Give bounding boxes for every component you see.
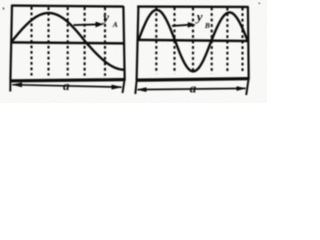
panel B left extension line <box>135 81 136 94</box>
panel A top border <box>11 6 123 7</box>
panel A dimension right arrowhead <box>112 85 123 90</box>
svg-text:a: a <box>190 80 197 95</box>
panel B sine curve yB <box>139 10 248 71</box>
panel B velocity arrowhead <box>188 22 196 28</box>
panel A bottom border <box>10 80 124 81</box>
panel A left extension line <box>9 81 11 92</box>
svg-text:a: a <box>63 78 70 93</box>
panel A dimension line <box>13 85 122 87</box>
panel B right extension line <box>246 80 248 96</box>
svg-text:B: B <box>204 21 210 30</box>
panel B dashed gridlines <box>156 8 242 74</box>
panel B dimension left arrowhead <box>136 87 146 92</box>
panel B velocity arrow line <box>172 25 189 26</box>
panel A right extension line <box>123 80 125 93</box>
panel A right border <box>123 6 124 81</box>
panel A velocity arrow line <box>74 23 97 26</box>
panel A midline <box>11 42 124 43</box>
scan speck top-left <box>3 8 4 10</box>
panel B top border <box>137 5 248 8</box>
panel A velocity arrowhead <box>96 22 104 28</box>
svg-text:y: y <box>101 10 109 25</box>
panel B dimension right arrowhead <box>237 86 247 91</box>
svg-text:y: y <box>195 9 203 24</box>
panel B right border <box>247 6 250 79</box>
panel A dimension left arrowhead <box>11 82 22 87</box>
svg-text:A: A <box>112 20 118 29</box>
panel B midline <box>137 40 248 41</box>
panel A dashed gridlines <box>32 7 106 76</box>
paper noise <box>0 0 1 1</box>
panel B dimension line <box>138 88 246 89</box>
panel B bottom border <box>137 79 249 81</box>
panel A sine curve yA <box>11 13 124 70</box>
panel B left border <box>137 6 139 81</box>
scan speck top-right <box>259 3 261 4</box>
panel A left border <box>10 5 12 81</box>
